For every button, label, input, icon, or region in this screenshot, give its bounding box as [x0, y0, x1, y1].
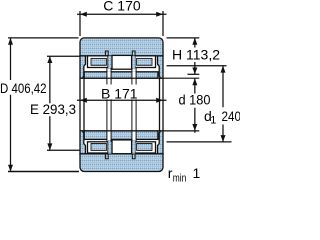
C dimension extension line right [162, 11, 164, 36]
roller core top-right [137, 58, 152, 65]
arrow d bottom [192, 124, 197, 131]
inner ring split line 3 [131, 68, 133, 142]
H extension top (OD) [167, 37, 200, 39]
center rib blue fill top-right [131, 56, 135, 69]
arrow H top [192, 38, 197, 45]
outer ring bottom-right lip [158, 131, 164, 154]
raceway relief notch top-right [132, 51, 135, 56]
svg-text:1: 1 [210, 114, 216, 126]
C dimension line [77, 13, 167, 15]
E dimension extension top [47, 55, 80, 57]
d dimension line [194, 78, 196, 133]
roller bottom-right [135, 142, 156, 153]
C dimension extension line left [79, 11, 81, 36]
arrow E bottom [47, 143, 52, 150]
D dimension extension top [8, 37, 79, 39]
arrow E top [47, 56, 52, 63]
raceway relief notch top-left [105, 51, 108, 56]
outer ring left silhouette line in bore [79, 78, 81, 131]
arrow C left [80, 12, 87, 17]
d1 extension top [167, 65, 227, 67]
center rib blue fill top-left [108, 56, 112, 69]
outer ring bottom section [80, 154, 163, 172]
H dimension line [194, 38, 196, 74]
outer ring bottom-left lip [80, 131, 86, 154]
arrow B left [80, 98, 87, 103]
svg-text:d 180: d 180 [179, 91, 211, 107]
arrow D bottom [8, 165, 13, 172]
inner ring split gap top-right [132, 71, 136, 79]
inner ring bottom bar [84, 131, 158, 140]
center spacer block top [112, 55, 132, 69]
E dimension line [49, 56, 51, 150]
arrow D top [8, 38, 13, 45]
bore surface top with d extension [80, 77, 199, 79]
center spacer block bottom [112, 140, 132, 154]
svg-text:E 293,3: E 293,3 [30, 101, 76, 117]
D dimension extension bottom [8, 171, 79, 173]
inner ring split line 4 [135, 68, 137, 142]
svg-text:C 170: C 170 [103, 0, 141, 13]
outer ring top-left lip [80, 56, 86, 78]
arrow H bottom [192, 68, 197, 75]
B dimension line [77, 99, 167, 101]
roller core bottom-right [137, 144, 152, 151]
E dimension extension bottom [47, 149, 80, 151]
outer ring top-right lip [158, 56, 164, 78]
raceway relief notch bottom-left [105, 154, 108, 159]
roller top-left [88, 56, 109, 68]
roller bottom-left [88, 142, 109, 153]
inner ring split gap top-left [107, 71, 111, 79]
inner ring split gap bottom-right [132, 130, 136, 140]
roller core bottom-left [91, 144, 106, 151]
arrow d top [192, 78, 197, 85]
D dimension line [10, 38, 12, 172]
svg-text:240: 240 [222, 108, 241, 124]
svg-text:min: min [173, 173, 187, 183]
inner ring right face line in bore [159, 78, 161, 131]
arrow d1 bottom [221, 135, 226, 142]
center rib blue fill bottom-right [131, 140, 135, 154]
svg-text:1: 1 [193, 165, 201, 181]
roller top-right [135, 56, 156, 68]
inner ring top bar [84, 72, 158, 78]
d1 extension bottom [167, 141, 232, 143]
outer ring right silhouette line in bore [162, 78, 164, 131]
svg-text:B 171: B 171 [101, 85, 138, 101]
arrow C right [156, 12, 163, 17]
svg-text:H 113,2: H 113,2 [172, 47, 220, 63]
outer ring top section [80, 38, 163, 56]
arrow B right [156, 98, 163, 103]
inner ring split line 2 [110, 68, 112, 142]
inner ring left face line in bore [83, 78, 85, 131]
bore surface bottom with d extension [80, 130, 199, 132]
inner ring split line 1 [106, 68, 108, 142]
H extension bottom [188, 73, 200, 75]
center rib blue fill bottom-left [108, 140, 112, 154]
svg-text:D 406,42: D 406,42 [0, 80, 47, 96]
white box under B text [101, 85, 139, 100]
inner ring split gap bottom-left [107, 130, 111, 140]
raceway relief notch bottom-right [132, 154, 135, 159]
roller core top-left [91, 58, 106, 65]
d1 dimension line [222, 66, 224, 142]
arrow d1 top [221, 66, 226, 73]
